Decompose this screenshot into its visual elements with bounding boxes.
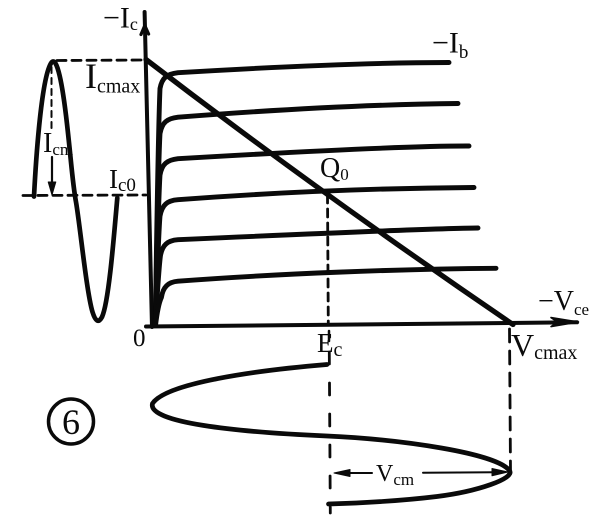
svg-text:Vcmax: Vcmax: [511, 327, 577, 364]
Vcm arrow line: [349, 472, 372, 474]
Icmax level dashed line: [57, 59, 146, 62]
bottom sine wave (collector voltage): [152, 365, 510, 505]
svg-text:0: 0: [133, 325, 146, 352]
x-axis (-Vce axis): [146, 322, 577, 326]
Ic0 level dashed baseline: [23, 194, 146, 197]
load line: [146, 60, 513, 325]
svg-text:−Vce: −Vce: [538, 286, 589, 319]
svg-text:6: 6: [62, 402, 80, 442]
Q-point dashed vertical (to Ec): [326, 195, 330, 325]
Vcm right arrow shaft and head: [423, 471, 494, 474]
characteristic curve 6 (bottom): [156, 268, 497, 325]
svg-text:Ic0: Ic0: [109, 164, 136, 196]
x-axis arrowhead: [551, 318, 579, 327]
svg-text:Ec: Ec: [317, 328, 343, 361]
circle around figure number 6: [49, 399, 94, 444]
Icm arrowhead (down): [48, 182, 56, 195]
svg-text:Icmax: Icmax: [85, 56, 140, 98]
characteristic curve 1 (top, -Ib): [155, 63, 449, 326]
dashed drop from sine peak: [51, 67, 53, 128]
characteristic curve 3: [155, 146, 469, 326]
svg-text:−Ib: −Ib: [432, 27, 468, 64]
svg-text:Q0: Q0: [320, 153, 349, 184]
svg-text:−Ic: −Ic: [103, 2, 138, 35]
left sine wave (collector current): [34, 61, 117, 320]
characteristic curve 4: [155, 188, 474, 326]
Vcm left arrowhead: [334, 470, 350, 477]
characteristic curve 5: [155, 228, 478, 326]
Vcmax dashed vertical: [510, 329, 511, 471]
y-axis (-Ic axis): [145, 12, 152, 327]
characteristic curve 2: [155, 104, 458, 326]
Ec dashed vertical below axis: [328, 331, 331, 341]
y-axis arrowhead: [141, 26, 149, 35]
svg-text:Vcm: Vcm: [376, 461, 414, 489]
Icm arrow shaft: [51, 157, 53, 188]
